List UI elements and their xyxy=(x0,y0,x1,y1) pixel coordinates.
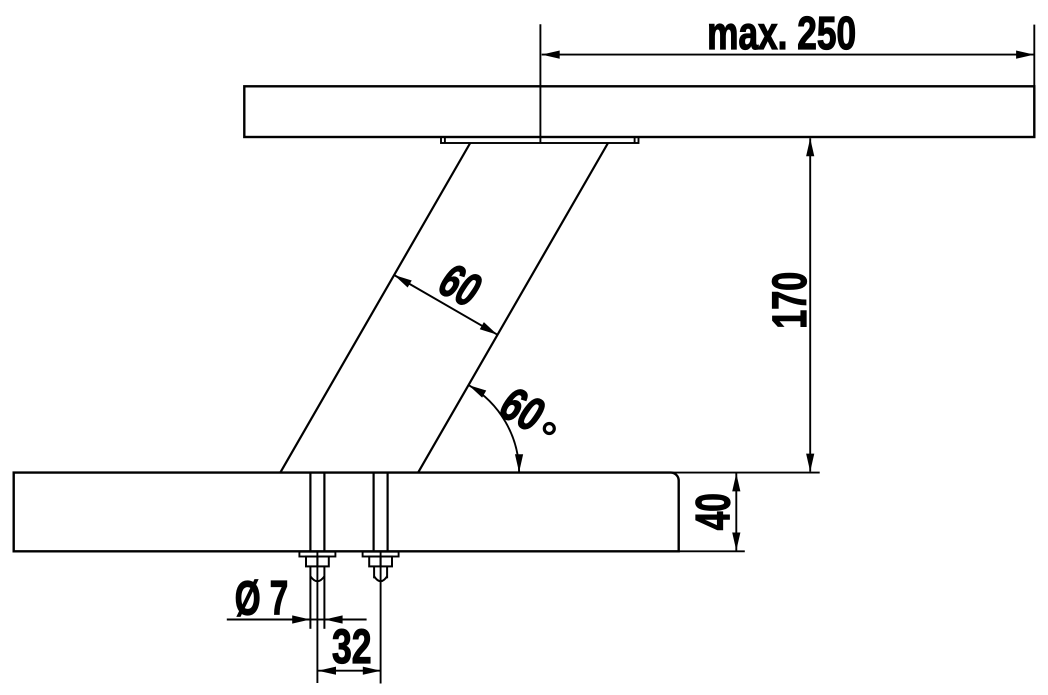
svg-text:32: 32 xyxy=(332,621,372,674)
svg-text:40: 40 xyxy=(687,493,740,530)
svg-text:max. 250: max. 250 xyxy=(707,7,856,59)
svg-text:170: 170 xyxy=(764,272,817,329)
svg-text:Ø 7: Ø 7 xyxy=(235,572,289,625)
